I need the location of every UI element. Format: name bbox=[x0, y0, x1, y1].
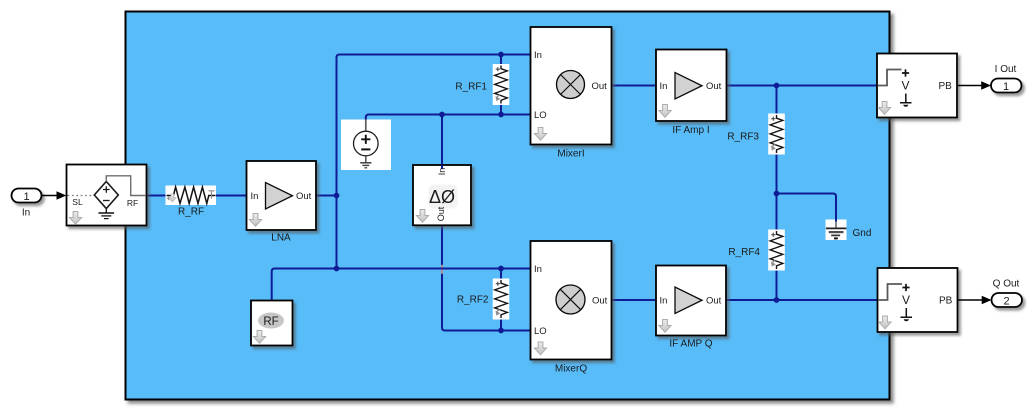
internal ground of source bbox=[105, 209, 107, 213]
svg-text:LO: LO bbox=[534, 326, 547, 337]
svg-text:2: 2 bbox=[1003, 295, 1009, 307]
wire: R_RF input line from source block to LNA bbox=[147, 195, 247, 197]
svg-text:R_RF1: R_RF1 bbox=[455, 82, 487, 93]
output port 2 Q Out bbox=[992, 279, 1023, 308]
port oval In bbox=[12, 189, 42, 203]
signal arrow to I Out port bbox=[957, 81, 991, 90]
resistor R_RF3 bbox=[727, 114, 784, 155]
IF AMP Q block bbox=[656, 266, 726, 350]
ground of DC source bbox=[365, 156, 367, 163]
svg-text:1: 1 bbox=[1003, 81, 1009, 93]
junction dot R_RF3 bottom / Gnd branch bbox=[774, 191, 780, 197]
Gnd ground block bbox=[826, 220, 872, 241]
svg-text:RF: RF bbox=[263, 316, 278, 328]
junction dot MixerI LO / R_RF1 bottom bbox=[498, 112, 504, 118]
junction dot A on LNA output bbox=[334, 193, 340, 199]
wire: LO line down into phase shifter In bbox=[441, 115, 443, 166]
svg-text:Out: Out bbox=[592, 81, 608, 92]
svg-text:In: In bbox=[534, 264, 542, 275]
junction dot Q line / R_RF4 bottom bbox=[774, 297, 780, 303]
svg-text:PB: PB bbox=[939, 296, 953, 307]
wire: junction B left and down to RF block bbox=[272, 269, 337, 301]
DC source block bbox=[341, 120, 391, 171]
badge arrow bbox=[69, 212, 81, 225]
phase shifter block bbox=[413, 165, 471, 225]
junction dot B lower riser bbox=[334, 266, 340, 272]
junction dot MixerI In / R_RF1 top bbox=[498, 52, 504, 58]
svg-text:In: In bbox=[437, 168, 447, 176]
amplifier triangle bbox=[675, 73, 702, 100]
Q Out voltage sensor block bbox=[878, 268, 958, 332]
svg-text:In: In bbox=[660, 296, 668, 307]
svg-text:IF AMP Q: IF AMP Q bbox=[669, 339, 712, 350]
wire: R_RF1 branch MixerI In to LO bbox=[500, 55, 502, 115]
wire: riser junction A down to junction B and MixerQ In bbox=[337, 196, 531, 269]
svg-text:V: V bbox=[902, 78, 910, 92]
svg-text:Out: Out bbox=[706, 296, 722, 307]
wire stub into In pin bbox=[441, 165, 443, 169]
svg-text:Gnd: Gnd bbox=[853, 228, 872, 239]
I Out voltage sensor block bbox=[877, 54, 957, 118]
svg-text:RF: RF bbox=[127, 198, 138, 208]
svg-text:Out: Out bbox=[592, 296, 608, 307]
amplifier triangle bbox=[675, 287, 702, 314]
junction dot LO line / phase shifter tap bbox=[439, 112, 445, 118]
svg-text:MixerQ: MixerQ bbox=[555, 364, 587, 375]
resistor R_RF4 bbox=[728, 230, 784, 271]
svg-text:1: 1 bbox=[23, 191, 29, 203]
svg-text:R_RF2: R_RF2 bbox=[457, 295, 489, 306]
svg-text:In: In bbox=[534, 50, 542, 61]
junction dot MixerQ LO / R_RF2 bottom bbox=[498, 328, 504, 334]
wire: LNA output to junction A bbox=[316, 195, 337, 197]
svg-text:ΔØ: ΔØ bbox=[429, 187, 455, 207]
wire: junction C to ground block bbox=[777, 194, 837, 221]
amplifier triangle bbox=[266, 183, 293, 210]
internal wire from diamond top to RF pin bbox=[106, 176, 146, 196]
wire: R_RF2 branch MixerQ In to LO bbox=[500, 269, 502, 331]
svg-text:PB: PB bbox=[939, 81, 953, 92]
mixer circle-X icon bbox=[557, 71, 585, 99]
resistor R_RF2 bbox=[457, 279, 509, 320]
signal arrow to Q Out port bbox=[958, 296, 992, 305]
svg-text:R_RF4: R_RF4 bbox=[728, 247, 760, 258]
wire: DC source up to LO distribution line to MixerI LO bbox=[366, 115, 531, 121]
input port 1 "In" bbox=[12, 189, 42, 219]
svg-text:In: In bbox=[251, 191, 259, 202]
dotted SL input line bbox=[68, 195, 95, 197]
svg-text:Out: Out bbox=[436, 206, 446, 221]
mixer circle-X icon bbox=[556, 285, 585, 314]
LNA amplifier block bbox=[247, 161, 317, 244]
wire: IF Amp I Out to I Out sensor bbox=[726, 85, 877, 87]
wire: R_RF4 vertical branch down to Q line bbox=[776, 194, 778, 301]
svg-text:V: V bbox=[902, 293, 910, 307]
svg-text:LO: LO bbox=[534, 110, 547, 121]
resistor R_RF1 bbox=[455, 64, 509, 105]
IF Amp I block bbox=[656, 50, 727, 137]
svg-text:R_RF3: R_RF3 bbox=[727, 132, 759, 143]
svg-text:In: In bbox=[22, 208, 30, 219]
svg-text:Q Out: Q Out bbox=[993, 279, 1020, 290]
resistor R_RF (horizontal) bbox=[166, 186, 217, 218]
svg-text:I Out: I Out bbox=[995, 64, 1017, 75]
svg-text:Out: Out bbox=[296, 191, 312, 202]
MixerI block bbox=[531, 27, 612, 160]
svg-text:SL: SL bbox=[72, 197, 83, 207]
svg-text:R_RF: R_RF bbox=[178, 207, 204, 218]
svg-text:LNA: LNA bbox=[271, 233, 291, 244]
svg-text:MixerI: MixerI bbox=[557, 149, 584, 160]
diamond controlled source symbol bbox=[94, 182, 118, 209]
RF oval icon bbox=[258, 313, 284, 329]
wire crossing hop at phase line over MixerQ In line bbox=[441, 265, 443, 274]
wire: R_RF3 vertical branch down from I line bbox=[776, 86, 778, 194]
wire: IF AMP Q Out to Q Out sensor bbox=[726, 299, 878, 301]
svg-text:Out: Out bbox=[706, 81, 722, 92]
RF annotation block bbox=[251, 301, 293, 346]
wire: MixerI Out to IF Amp I In bbox=[612, 85, 657, 87]
svg-text:IF Amp I: IF Amp I bbox=[672, 125, 709, 136]
svg-text:In: In bbox=[660, 81, 668, 92]
wire: phase shifter Out down to MixerQ LO bbox=[442, 225, 531, 330]
junction dot MixerQ In / R_RF2 top bbox=[498, 266, 504, 272]
output port 1 I Out bbox=[991, 64, 1022, 93]
subsystem background area bbox=[126, 12, 890, 400]
wire: MixerQ Out to IF AMP Q In bbox=[612, 299, 657, 301]
junction dot I line / R_RF3 top bbox=[774, 83, 780, 89]
DC source circle bbox=[354, 131, 379, 156]
MixerQ block bbox=[531, 241, 612, 375]
controlled source block U1 (SL to RF converter) bbox=[67, 165, 147, 226]
wire: riser junction A up to MixerI In bbox=[337, 55, 531, 196]
signal arrow from In port to source block bbox=[42, 191, 67, 200]
